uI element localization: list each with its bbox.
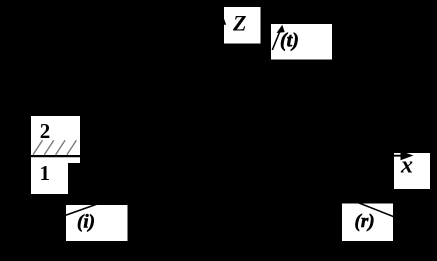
hatching on medium-2 side — [33, 140, 76, 155]
svg-text:(i): (i) — [77, 212, 95, 233]
label box medium 2 — [31, 116, 80, 163]
label 2 — [40, 119, 51, 143]
label (r) — [355, 211, 375, 232]
svg-text:Z: Z — [232, 11, 246, 36]
label (t) — [280, 30, 299, 52]
label 1 — [40, 161, 51, 185]
interface line — [31, 155, 84, 157]
svg-text:2: 2 — [40, 119, 51, 143]
label Z — [232, 11, 246, 36]
label (i) — [77, 212, 95, 233]
reflected ray segment — [354, 201, 398, 218]
svg-text:(r): (r) — [355, 211, 375, 232]
svg-text:x: x — [400, 153, 413, 179]
label box (i) — [66, 205, 128, 241]
svg-text:1: 1 — [40, 161, 51, 185]
transmitted ray arrow — [272, 25, 284, 50]
Z-axis arrowhead — [219, 15, 226, 25]
label box (r) — [342, 204, 393, 242]
svg-text:(t): (t) — [280, 30, 299, 52]
label box (t) — [271, 24, 332, 60]
label x — [400, 153, 413, 179]
incident ray segment — [60, 202, 104, 218]
x-axis arrow — [380, 151, 414, 160]
label box x — [394, 153, 430, 189]
label box medium 1 — [31, 155, 68, 194]
label box Z — [224, 7, 261, 44]
